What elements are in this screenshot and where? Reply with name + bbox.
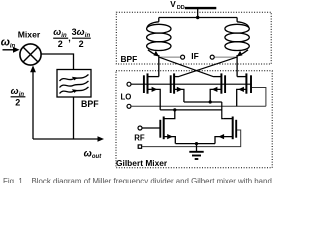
wire right pair common source — [184, 101, 222, 103]
svg-text:IF: IF — [191, 51, 198, 61]
wire mixer output to BPF — [41, 54, 73, 70]
label omega_out — [84, 148, 103, 160]
wire LO+ gate line — [131, 83, 252, 85]
transistor M4 (quad, right outer, mirrored) — [237, 73, 251, 106]
svg-text:out: out — [92, 154, 102, 160]
svg-text:ω: ω — [11, 86, 19, 97]
transistor M5 (RF left) — [160, 110, 175, 144]
BPF dotted box (inductor tank) — [116, 12, 271, 64]
label omega_in/2, 3omega_in/2 fractions — [53, 27, 91, 49]
label IF — [191, 51, 198, 61]
svg-text:V: V — [170, 0, 176, 9]
wire common source rail — [176, 143, 216, 145]
label LO — [121, 93, 132, 102]
label Gilbert Mixer — [116, 158, 168, 168]
svg-text:LO: LO — [121, 93, 132, 102]
wire output arrow omega_out — [33, 136, 104, 142]
ground symbol — [189, 144, 203, 159]
junction dot VDD rail — [196, 16, 199, 19]
wire input arrow into mixer — [3, 47, 20, 53]
Gilbert Mixer dashed box — [116, 71, 272, 168]
wire top rail — [159, 17, 237, 19]
svg-text:BPF: BPF — [121, 54, 138, 64]
svg-text:RF: RF — [134, 134, 145, 143]
node LO+ terminal — [127, 82, 131, 86]
label BPF (left diagram) — [81, 99, 99, 109]
wire cross-coupling diagonal left-to-right — [159, 57, 214, 77]
svg-text:Gilbert Mixer: Gilbert Mixer — [116, 158, 168, 168]
filter BPF box — [57, 70, 91, 98]
wire RF+ line to right gate — [142, 130, 241, 147]
mixer X1 (multiplier circle) — [20, 44, 41, 65]
node LO- terminal — [127, 104, 131, 108]
wire cross-coupling diagonal right-to-left — [178, 57, 237, 77]
node IF+ terminal — [210, 55, 237, 59]
transistor M2 (quad, left inner) — [171, 73, 184, 102]
inductor L1 (left tank coil) — [147, 18, 171, 57]
svg-text:ω: ω — [84, 148, 92, 159]
wire LO- line — [131, 105, 266, 107]
label RF — [134, 134, 145, 143]
wire left pair common source — [160, 109, 222, 111]
label BPF (schematic) — [121, 54, 138, 64]
inductor L2 (right tank coil) — [225, 18, 249, 57]
wire feedback up into mixer — [30, 65, 36, 139]
svg-text:ω: ω — [53, 27, 61, 38]
node RF- terminal — [138, 126, 142, 130]
transistor M3 (quad, right inner, mirrored) — [210, 73, 225, 102]
svg-text:Fig. 1. Block diagram of Mil: Fig. 1. Block diagram of Miller frequenc… — [3, 177, 272, 183]
wire M4 drain riser — [236, 55, 238, 77]
label Mixer — [18, 30, 41, 40]
transistor M6 (RF right, mirrored) — [215, 117, 236, 144]
svg-text:ω: ω — [77, 27, 85, 38]
junction dot RF1 drain — [173, 108, 176, 111]
wire RF- gate — [142, 127, 160, 129]
svg-text:Mixer: Mixer — [18, 30, 41, 40]
svg-text:2: 2 — [58, 39, 63, 49]
wire source drop to RF2 — [222, 102, 224, 119]
svg-text:BPF: BPF — [81, 99, 99, 109]
label omega_in/2 feedback — [11, 86, 26, 108]
node omega_in input label — [1, 37, 16, 50]
node RF+ terminal — [138, 145, 141, 148]
caption Fig. 1 — [3, 177, 272, 186]
node IF- terminal — [159, 55, 185, 59]
svg-text:,: , — [68, 33, 71, 43]
wire M1 drain riser — [158, 55, 160, 77]
svg-text:ω: ω — [1, 37, 10, 49]
transistor M1 (quad, left outer) — [144, 73, 160, 110]
junction dot M3 source — [209, 100, 212, 103]
wire M4 gate loop — [252, 88, 266, 107]
svg-text:2: 2 — [15, 97, 20, 107]
svg-text:2: 2 — [79, 39, 84, 49]
svg-text:DD: DD — [177, 5, 185, 11]
wire BPF output down — [73, 97, 75, 139]
power VDD symbol — [170, 0, 216, 18]
junction dot ground tap — [195, 142, 198, 145]
